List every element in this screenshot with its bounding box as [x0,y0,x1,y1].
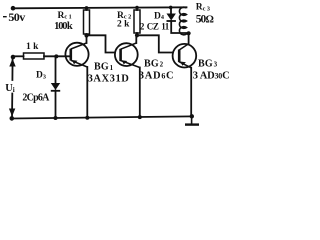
node terminal top-left [11,6,16,11]
wire bottom rail [12,116,192,118]
svg-text:3AD6C: 3AD6C [139,71,175,82]
svg-text:100k: 100k [54,21,73,32]
wire BG3 collector vertical [188,33,190,44]
node BG1 emitter bottom [85,116,89,120]
wire Ui vertical top segment with arrow [11,57,13,80]
diode D4 [167,14,176,22]
wire 1k right lead to BG1 base [44,55,71,57]
resistor Rc1 body [84,10,90,34]
wire Ui vertical bottom segment [11,94,13,119]
node Rc1 top [85,6,89,10]
wire top rail [13,7,187,8]
node input left [11,55,16,60]
resistor 1k body [24,53,45,59]
node ground junction [190,114,194,118]
diode D3 [51,83,60,91]
svg-text:2 k: 2 k [117,20,130,30]
svg-text:BG2: BG2 [144,58,164,69]
node 2 Rc2 bottom [135,33,139,37]
node BG2 emitter bottom [138,115,142,119]
svg-text:BG1: BG1 [94,61,114,72]
inductor coil Rc3 [179,7,188,35]
resistor Rc2 body [134,10,140,33]
wire BG2 emitter vertical [139,68,141,118]
transistor BG2 [115,43,140,68]
wire node2 to BG3 base [137,35,173,52]
ground [185,116,199,124]
transistor BG3 [173,44,197,68]
wire BG1 collector vertical [86,36,88,44]
wire 1k left lead [13,55,24,57]
svg-text:3AX31D: 3AX31D [88,73,130,84]
svg-text:2Cp6A: 2Cp6A [22,92,50,103]
wire node1 to BG2 base [87,35,116,52]
node Rc2 top [135,6,139,10]
wire BG1 emitter vertical [86,67,88,118]
wire Rc2 bottom stub [136,33,138,35]
label -50v minus sign [3,16,7,18]
wire D4 bottom lead and run to node3 [171,21,188,33]
transistor BG1 [65,43,88,67]
resistor Rc1 top stub [86,8,88,10]
svg-text:BG3: BG3 [198,58,218,69]
node 3 coil bottom [187,31,191,35]
wire BG3 emitter vertical [190,68,192,117]
svg-text:3 AD30C: 3 AD30C [193,71,230,82]
node 1k D3 junction [54,54,58,58]
wire Rc1 bottom stub [86,34,88,36]
wire BG2 collector vertical [135,35,137,43]
svg-text:1 k: 1 k [26,42,39,52]
svg-text:50v: 50v [8,10,25,24]
arrow Ui up [9,59,15,67]
resistor Rc2 top stub [136,8,138,10]
arrow Ui down [9,109,15,117]
wire D4 top lead [170,7,172,13]
node 1 Rc1 bottom [84,33,88,37]
wire D3 bottom lead [55,91,57,119]
node D3 bottom [54,116,58,120]
wire D3 top lead [55,57,57,84]
node D4 top [169,6,173,10]
svg-text:50Ω: 50Ω [196,14,214,26]
node bottom-left [10,116,15,121]
